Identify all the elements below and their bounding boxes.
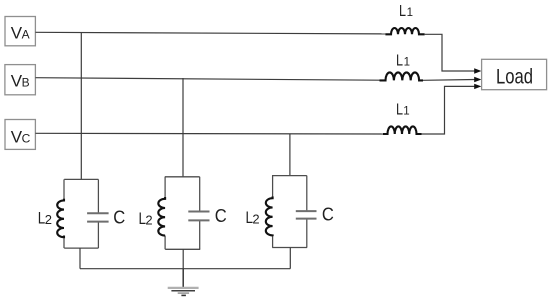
svg-text:1: 1 bbox=[407, 7, 413, 19]
ground stem bbox=[182, 269, 184, 288]
wire tank 3 bottom feed bbox=[289, 248, 291, 269]
label L1 phase A bbox=[399, 3, 413, 20]
inductor L1 phase A bbox=[385, 28, 424, 34]
tank 2 frame bbox=[165, 177, 200, 250]
svg-text:A: A bbox=[22, 28, 30, 42]
inductor L2 tank 3 bbox=[266, 196, 273, 236]
node: feed tank 2 from phase B bbox=[182, 78, 184, 177]
arrow phase A into Load bbox=[474, 68, 481, 73]
label L2 tank 1 bbox=[38, 209, 52, 228]
label L2 tank 2 bbox=[139, 209, 153, 228]
svg-text:1: 1 bbox=[404, 57, 410, 69]
svg-text:B: B bbox=[22, 75, 30, 89]
svg-text:L: L bbox=[399, 3, 406, 20]
svg-text:2: 2 bbox=[252, 212, 259, 227]
node: feed tank 1 from phase A bbox=[80, 33, 82, 180]
wire tank 2 bottom feed bbox=[182, 249, 184, 268]
label L1 phase C bbox=[396, 101, 410, 118]
wire phase A from VA to L1 bbox=[35, 32, 385, 34]
wire phase C from L1 up to Load bbox=[422, 86, 475, 134]
capacitor C tank 3 bbox=[296, 211, 317, 219]
svg-text:1: 1 bbox=[403, 105, 409, 117]
wire common neutral bus bbox=[80, 268, 290, 270]
ground bbox=[168, 288, 199, 296]
svg-text:Load: Load bbox=[496, 64, 533, 88]
source VB bbox=[5, 65, 36, 95]
svg-text:C: C bbox=[113, 206, 125, 227]
tank 3 frame bbox=[272, 176, 307, 248]
svg-text:C: C bbox=[215, 205, 227, 226]
label L2 tank 3 bbox=[246, 208, 260, 227]
svg-text:C: C bbox=[22, 131, 31, 145]
wire tank 1 bottom feed bbox=[79, 248, 81, 269]
svg-text:C: C bbox=[322, 204, 334, 225]
inductor L2 tank 1 bbox=[57, 199, 64, 238]
wire phase B from L1 to Load bbox=[423, 79, 475, 82]
svg-text:2: 2 bbox=[145, 213, 152, 228]
wire phase A from L1 to corner and down to Load bbox=[425, 34, 475, 71]
svg-text:L: L bbox=[396, 53, 403, 70]
inductor L2 tank 2 bbox=[158, 197, 165, 236]
svg-text:2: 2 bbox=[45, 212, 52, 227]
capacitor C tank 1 bbox=[87, 213, 109, 221]
source VA bbox=[5, 17, 35, 46]
wire phase B from VB to L1 bbox=[35, 78, 379, 81]
arrow phase C into Load bbox=[474, 84, 481, 89]
arrow phase B into Load bbox=[474, 77, 481, 82]
inductor L1 phase C bbox=[383, 126, 422, 134]
node: feed tank 3 from phase C bbox=[289, 134, 291, 176]
capacitor C tank 2 bbox=[188, 212, 209, 221]
inductor L1 phase B bbox=[380, 72, 424, 80]
label L1 phase B bbox=[396, 53, 410, 70]
Load box bbox=[482, 59, 547, 89]
svg-text:L: L bbox=[396, 101, 403, 118]
wire phase C from VC to L1 bbox=[35, 132, 383, 135]
source VC bbox=[5, 120, 35, 150]
tank 1 frame (top/bottom bars and legs) bbox=[64, 179, 98, 248]
